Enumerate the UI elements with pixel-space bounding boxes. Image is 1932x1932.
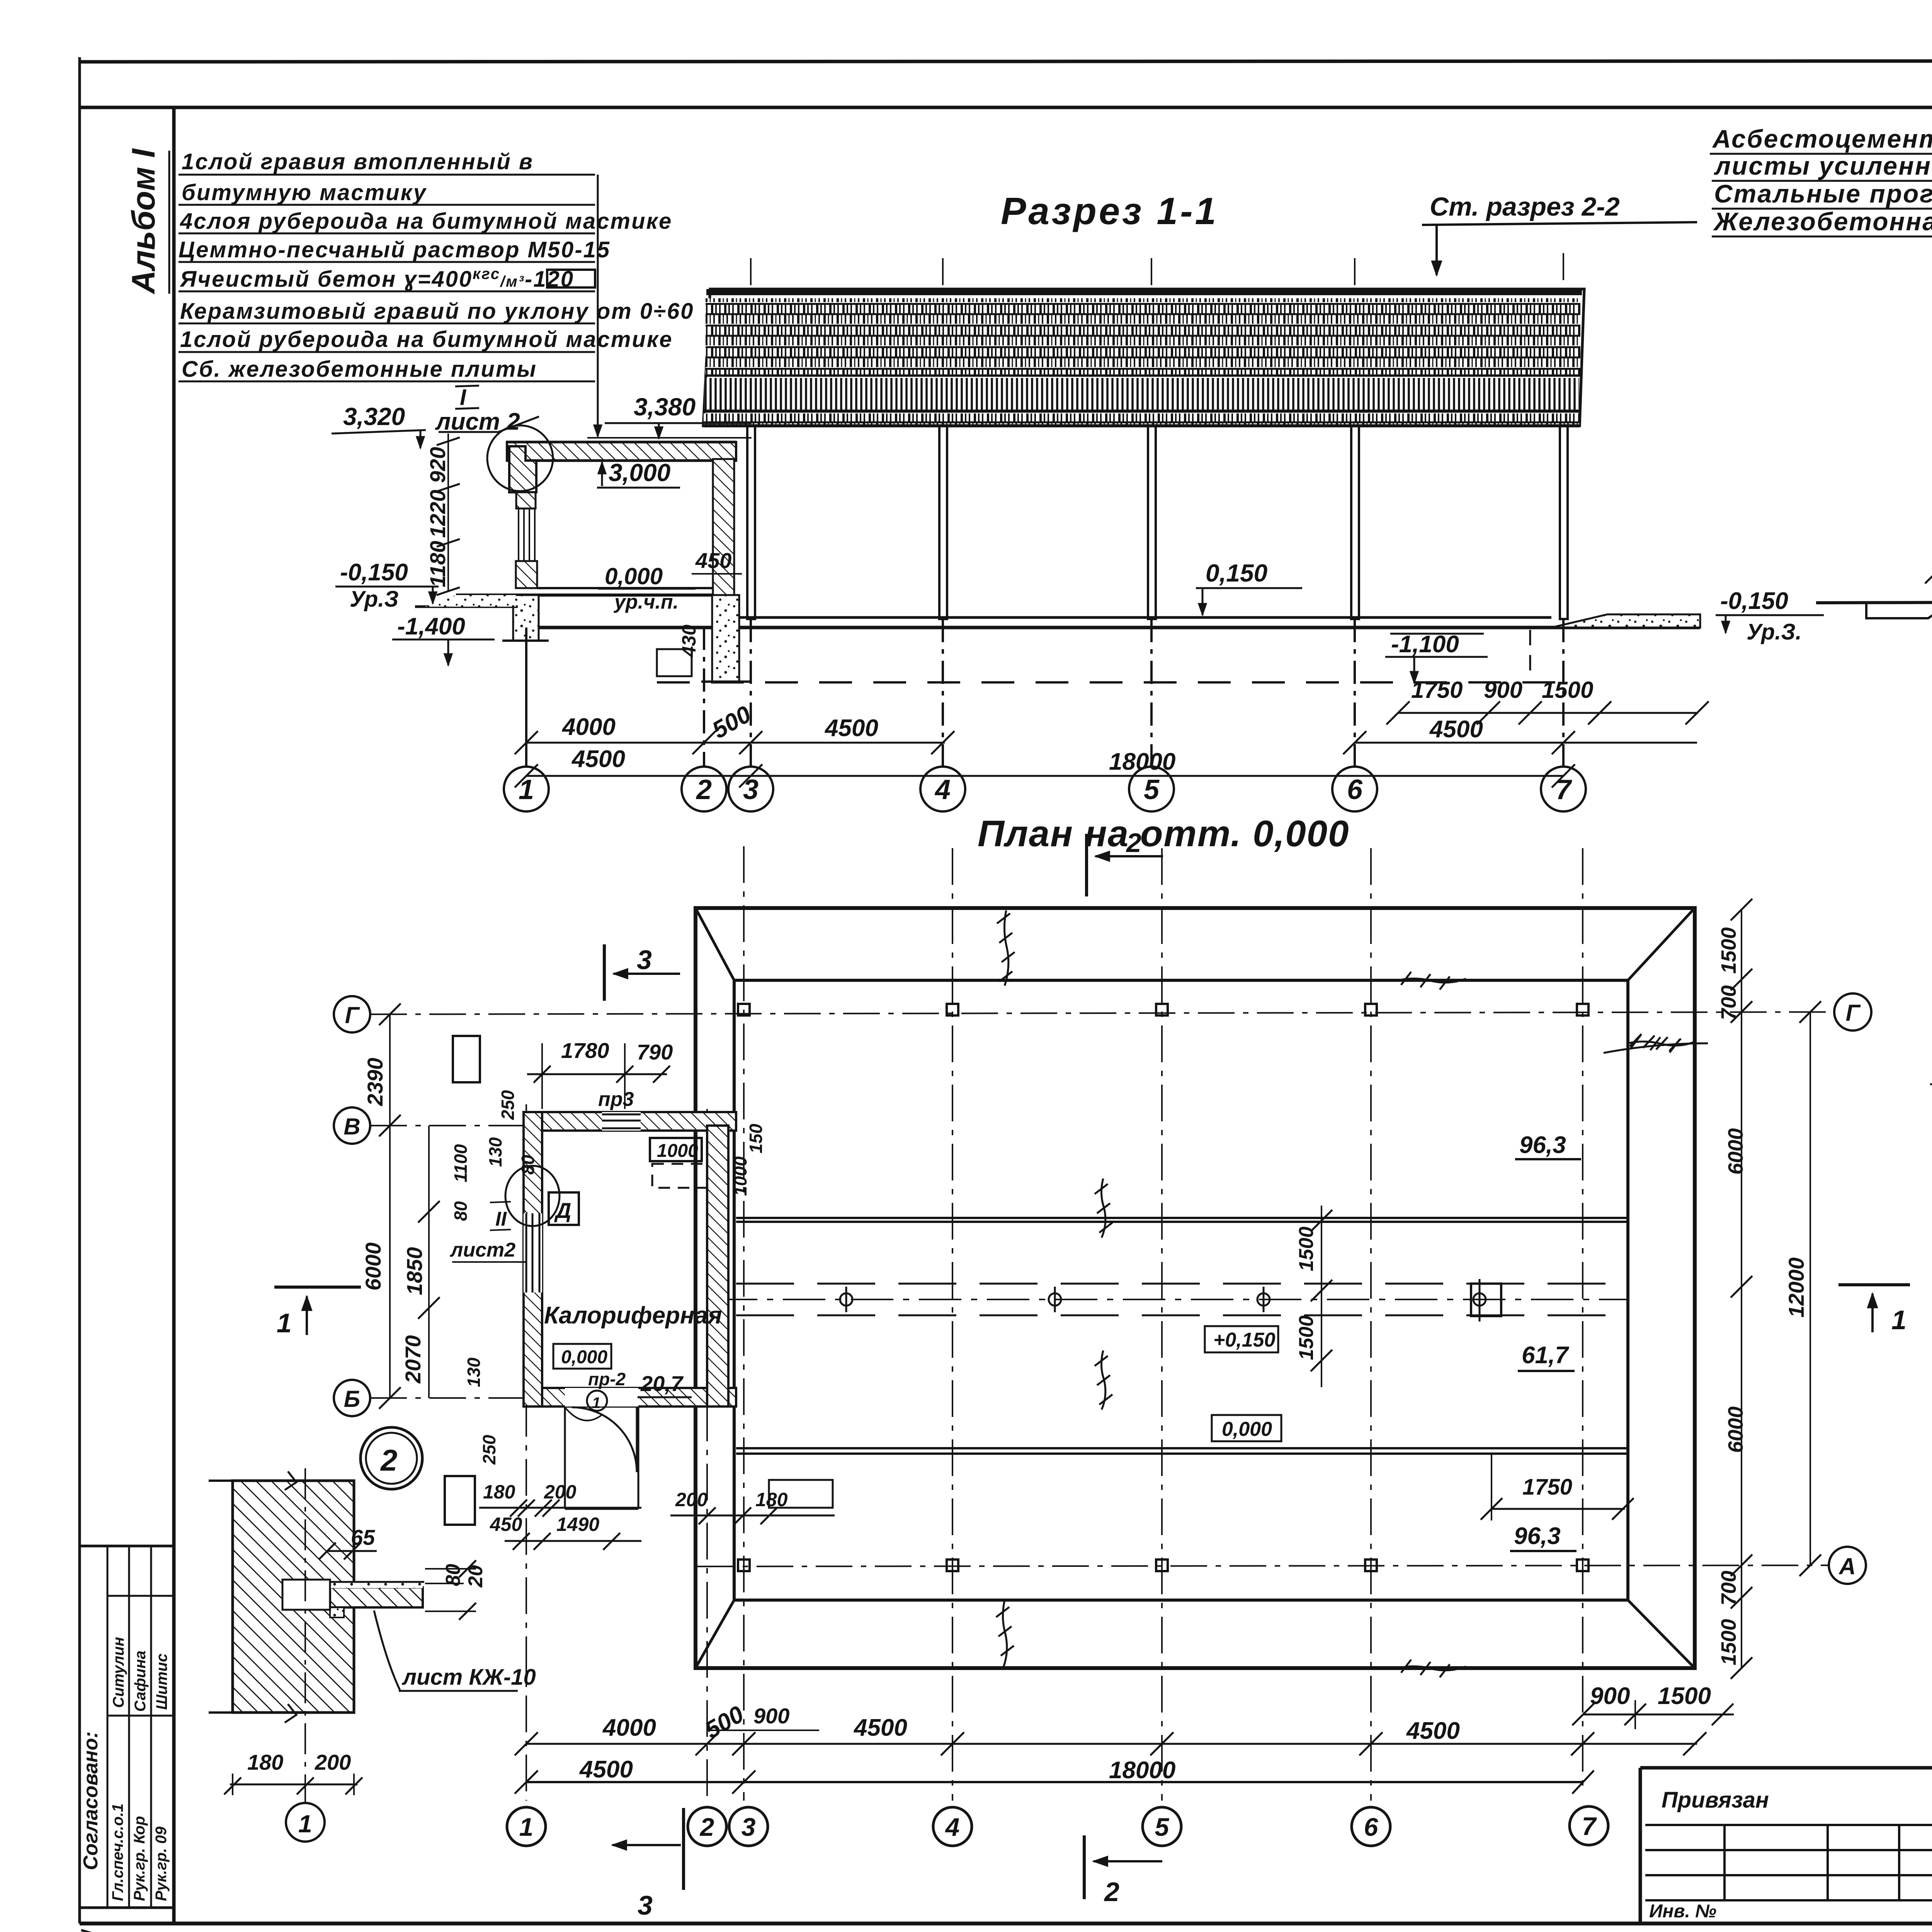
svg-text:130: 130 (464, 1357, 484, 1387)
svg-text:1: 1 (277, 1308, 292, 1338)
svg-text:2: 2 (380, 1443, 397, 1477)
svg-text:Рук.гр. 09: Рук.гр. 09 (153, 1826, 170, 1901)
svg-text:Г: Г (1846, 1000, 1861, 1026)
section mark 3 top (603, 944, 606, 1001)
svg-text:-0,150: -0,150 (1720, 588, 1788, 614)
svg-text:6000: 6000 (1724, 1406, 1747, 1453)
left height dims 920/1220/1180 (447, 434, 449, 591)
svg-text:План на отт. 0,000: План на отт. 0,000 (978, 813, 1350, 854)
svg-text:Гл.спеч.с.о.1: Гл.спеч.с.о.1 (109, 1803, 126, 1901)
svg-text:пр-2: пр-2 (588, 1369, 626, 1389)
svg-text:лист2: лист2 (449, 1239, 515, 1261)
svg-text:450: 450 (695, 548, 731, 573)
svg-text:80: 80 (518, 1155, 538, 1175)
svg-text:Шитис: Шитис (153, 1653, 170, 1710)
svg-text:ур.ч.п.: ур.ч.п. (613, 591, 679, 613)
boxed levels (1205, 1326, 1278, 1352)
annex roof slab (507, 442, 736, 461)
svg-text:II: II (495, 1208, 507, 1230)
canopy outer outline (696, 908, 1695, 1668)
svg-text:В: В (344, 1114, 360, 1139)
section mark 1 right (1838, 1283, 1910, 1286)
dims above room: 1780 790 (561, 1038, 673, 1064)
svg-text:700: 700 (1717, 985, 1740, 1020)
svg-text:0,000: 0,000 (1222, 1418, 1272, 1440)
svg-text:-1,400: -1,400 (397, 613, 465, 640)
axis circles left (334, 993, 1871, 1584)
svg-text:250: 250 (498, 1090, 518, 1120)
hall floor double line (734, 616, 1551, 619)
annex floor (537, 587, 713, 589)
right vertical dims (1741, 910, 1742, 1668)
svg-text:7: 7 (1556, 774, 1572, 805)
leader from legend down to annex roof (597, 175, 599, 394)
svg-text:1500: 1500 (1295, 1226, 1318, 1271)
axis lines above roof (751, 253, 1563, 425)
svg-text:200: 200 (544, 1481, 577, 1503)
svg-text:3,320: 3,320 (343, 403, 405, 430)
svg-text:1500: 1500 (1658, 1683, 1711, 1709)
svg-text:18000: 18000 (1109, 1757, 1175, 1784)
svg-text:65: 65 (351, 1525, 375, 1549)
svg-text:1750: 1750 (1411, 677, 1463, 703)
svg-text:180: 180 (247, 1750, 283, 1774)
ground left of annex (415, 605, 518, 608)
svg-text:1: 1 (1891, 1305, 1906, 1335)
svg-text:96,3: 96,3 (1514, 1523, 1561, 1549)
roof layers legend: 8 underlined lines (179, 149, 694, 382)
svg-text:900: 900 (753, 1704, 789, 1728)
svg-text:1слой рубероида на битумной ма: 1слой рубероида на битумной мастике (180, 327, 673, 352)
door opening to canopy lower wall part (564, 1406, 566, 1509)
svg-text:4500: 4500 (1406, 1718, 1460, 1744)
svg-text:6: 6 (1347, 774, 1363, 805)
bottom small dims near door: 180 200 etc (483, 1481, 788, 1535)
frame left (172, 107, 176, 1923)
svg-text:Рук.гр. Кор: Рук.гр. Кор (131, 1816, 148, 1901)
slope break marks (996, 910, 1695, 1677)
horizontal axis dash-dot lines (370, 1012, 1833, 1566)
svg-text:Ст. разрез 2-2: Ст. разрез 2-2 (1430, 192, 1620, 221)
opening пр3 in В wall (602, 1112, 641, 1131)
svg-text:61,7: 61,7 (1522, 1342, 1569, 1369)
bottom dims 180 200 (247, 1750, 351, 1774)
svg-text:3,000: 3,000 (609, 459, 670, 486)
svg-text:200: 200 (315, 1750, 351, 1774)
svg-text:Ур.З: Ур.З (350, 587, 399, 612)
detail callout 2 double circle (361, 1427, 422, 1489)
dims bottom right of section: 1750 900 1500 (1411, 677, 1593, 703)
svg-text:2: 2 (1126, 828, 1141, 858)
ground hatch right top corner (1604, 1034, 1708, 1053)
II лист2 callout (505, 1166, 560, 1226)
svg-text:12000: 12000 (1784, 1257, 1808, 1318)
sheet top edge band (80, 61, 1932, 62)
svg-text:1500: 1500 (1295, 1315, 1318, 1360)
svg-text:3: 3 (637, 945, 652, 975)
svg-text:6: 6 (1364, 1813, 1379, 1841)
cornice block at axis 1 (509, 446, 536, 492)
svg-text:1490: 1490 (556, 1514, 599, 1535)
svg-text:3: 3 (743, 774, 759, 805)
section mark 2 top (1085, 834, 1088, 896)
svg-text:Калориферная: Калориферная (544, 1302, 722, 1329)
svg-text:700: 700 (1717, 1571, 1740, 1605)
svg-text:0,150: 0,150 (1206, 559, 1267, 587)
svg-text:4000: 4000 (561, 714, 616, 740)
svg-text:1: 1 (519, 1813, 534, 1841)
svg-text:2390: 2390 (363, 1058, 387, 1106)
svg-text:I: I (460, 385, 467, 410)
bottom dim row 2 (579, 1756, 1175, 1784)
svg-text:4500: 4500 (1429, 716, 1483, 743)
svg-text:450: 450 (490, 1514, 522, 1535)
window пр1 in left wall (524, 1213, 542, 1293)
svg-text:4500: 4500 (579, 1756, 633, 1783)
svg-text:900: 900 (1484, 677, 1522, 703)
svg-text:920: 920 (425, 447, 450, 483)
annex left wall (516, 492, 536, 509)
svg-text:250: 250 (479, 1435, 499, 1465)
svg-text:5: 5 (1155, 1813, 1170, 1841)
dim row 1 (561, 701, 1483, 744)
svg-text:1850: 1850 (402, 1247, 427, 1295)
svg-text:6000: 6000 (1724, 1128, 1747, 1175)
svg-text:2: 2 (699, 1813, 714, 1841)
svg-text:3,380: 3,380 (634, 393, 696, 421)
svg-text:1500: 1500 (1717, 927, 1740, 974)
svg-text:1: 1 (592, 1395, 600, 1412)
hip bevels (696, 908, 1695, 1668)
bottom axis circles (507, 1806, 1608, 1846)
привязан table (1640, 1766, 1932, 1770)
svg-text:2: 2 (1104, 1877, 1119, 1907)
svg-text:1000: 1000 (730, 1156, 750, 1196)
column squares on axes Г and А (738, 1004, 1588, 1571)
svg-text:Керамзитовый гравий по уклону: Керамзитовый гравий по уклону от 0÷60 (180, 299, 694, 324)
svg-text:4500: 4500 (571, 746, 625, 772)
left vertical dim lines (389, 1014, 391, 1398)
area level labels (1514, 1132, 1569, 1549)
svg-text:Ур.З.: Ур.З. (1747, 619, 1802, 645)
svg-text:20,7: 20,7 (640, 1371, 684, 1396)
svg-text:1: 1 (519, 774, 534, 805)
svg-text:80: 80 (451, 1201, 471, 1221)
svg-text:6000: 6000 (361, 1242, 385, 1291)
notch in wall (282, 1580, 330, 1610)
axis circles section 1-1 (504, 619, 1586, 811)
vertical axis dash-dot lines (526, 846, 1583, 1801)
section mark 1 left (274, 1286, 361, 1289)
frame top (80, 106, 1932, 109)
axis line and circle 1 (304, 1468, 306, 1802)
interior paving edge lines (736, 1218, 1628, 1454)
break marks (285, 1471, 296, 1490)
svg-text:1500: 1500 (1717, 1619, 1740, 1665)
svg-text:3: 3 (638, 1890, 653, 1920)
svg-text:1780: 1780 (561, 1038, 609, 1063)
svg-text:1220: 1220 (425, 490, 450, 538)
svg-text:Б: Б (344, 1386, 360, 1412)
svg-text:1500: 1500 (1542, 677, 1593, 703)
svg-text:200: 200 (675, 1489, 708, 1510)
roof band of hall: layered texture (703, 289, 1584, 426)
svg-text:Асбестоцементные волнистые: Асбестоцементные волнистые (1712, 124, 1932, 153)
page curl bottom-left (81, 1930, 580, 1932)
Д box (549, 1192, 579, 1225)
svg-text:лист КЖ-10: лист КЖ-10 (401, 1665, 536, 1690)
svg-text:битумную мастику: битумную мастику (182, 180, 427, 205)
svg-text:900: 900 (1590, 1683, 1630, 1709)
mid columns circles (840, 1279, 1486, 1321)
svg-text:листы усиленного профиля: листы усиленного профиля (1714, 151, 1932, 180)
ground line with paving (1816, 600, 1932, 603)
small rotated dims near В (451, 1090, 766, 1465)
svg-text:-1,100: -1,100 (1391, 631, 1459, 658)
svg-text:180: 180 (483, 1481, 515, 1503)
svg-text:150: 150 (746, 1124, 766, 1153)
svg-text:1100: 1100 (451, 1144, 471, 1182)
svg-text:96,3: 96,3 (1519, 1132, 1566, 1158)
svg-text:4500: 4500 (853, 1714, 907, 1741)
svg-text:4: 4 (934, 774, 951, 805)
piers below annex (513, 595, 539, 641)
svg-text:0,000: 0,000 (605, 563, 663, 589)
foundation dashed line (657, 681, 1565, 684)
svg-text:1180: 1180 (425, 541, 450, 587)
svg-text:2070: 2070 (401, 1335, 425, 1384)
hall columns (747, 426, 1568, 619)
svg-text:1750: 1750 (1522, 1475, 1572, 1500)
hatched wall section (233, 1481, 354, 1713)
section mark 2 bottom (1083, 1835, 1086, 1899)
svg-text:3: 3 (742, 1813, 756, 1841)
svg-text:Альбом I: Альбом I (125, 148, 162, 294)
center beam band (736, 1283, 1628, 1285)
signature strip table (80, 1545, 174, 1548)
bottom dim row 1 (602, 1683, 1711, 1744)
svg-text:4: 4 (945, 1813, 960, 1841)
svg-text:7: 7 (1582, 1812, 1597, 1840)
svg-text:1слой гравия втопленный в: 1слой гравия втопленный в (182, 149, 534, 174)
svg-text:2: 2 (696, 774, 712, 805)
svg-text:+0,150: +0,150 (1213, 1329, 1276, 1351)
svg-text:Сафина: Сафина (132, 1651, 149, 1712)
callout circle узел I (487, 425, 553, 491)
svg-text:Цемтно-песчаный раствор М50-15: Цемтно-песчаный раствор М50-15 (179, 237, 611, 262)
svg-text:Ситулин: Ситулин (110, 1637, 127, 1708)
svg-text:Привязан: Привязан (1662, 1787, 1769, 1813)
sheet outer border left (78, 57, 81, 1923)
svg-text:5: 5 (1144, 774, 1160, 805)
section mark 3 bottom (682, 1808, 685, 1890)
svg-text:Инв. №: Инв. № (1649, 1901, 1716, 1922)
ramp right (1551, 614, 1700, 628)
svg-text:430: 430 (678, 624, 700, 657)
svg-text:Сб. железобетонные плиты: Сб. железобетонные плиты (182, 357, 537, 382)
svg-text:-0,150: -0,150 (340, 559, 408, 586)
svg-text:А: А (1838, 1553, 1855, 1579)
svg-text:4000: 4000 (602, 1714, 656, 1741)
svg-text:130: 130 (485, 1137, 505, 1167)
svg-text:1000: 1000 (657, 1141, 698, 1161)
chimney rects left (453, 1036, 480, 1082)
door in Б wall (565, 1388, 638, 1406)
svg-text:4500: 4500 (824, 715, 878, 742)
svg-text:Стальные прогоны С14: Стальные прогоны С14 (1714, 179, 1932, 208)
dim row 2 (571, 746, 1175, 775)
materials note 4 lines (1712, 124, 1932, 236)
svg-text:Разрез 1-1: Разрез 1-1 (1001, 190, 1218, 232)
svg-text:пр3: пр3 (598, 1088, 634, 1111)
svg-text:790: 790 (637, 1040, 673, 1064)
3,000 level inside annex (601, 462, 603, 486)
svg-text:Согласовано:: Согласовано: (80, 1731, 102, 1870)
svg-text:Железобетонная ферма: Железобетонная ферма (1713, 207, 1932, 236)
annex right wall (713, 459, 734, 627)
svg-text:0,000: 0,000 (561, 1347, 607, 1367)
protruding slab (330, 1587, 423, 1607)
1000 box + vent (650, 1138, 702, 1161)
canopy inner (eave) outline (734, 980, 1628, 1600)
svg-text:1: 1 (298, 1810, 312, 1838)
frame bottom (80, 1922, 1932, 1925)
svg-text:Г: Г (345, 1002, 361, 1028)
room walls (калориферная) (524, 1112, 736, 1131)
